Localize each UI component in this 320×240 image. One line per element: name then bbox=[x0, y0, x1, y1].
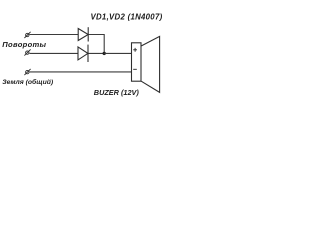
buzzer plus pin label bbox=[133, 48, 137, 52]
wire bus vertical joining cathodes bbox=[103, 34, 105, 53]
svg-text:VD1,VD2 (1N4007): VD1,VD2 (1N4007) bbox=[91, 12, 163, 21]
diode VD2 bbox=[78, 45, 88, 62]
buzzer BA1 body bbox=[132, 43, 142, 81]
buzzer horn bbox=[141, 36, 159, 92]
wire top input (Повороты 1) bbox=[30, 34, 79, 36]
wire VD1 cathode to bus bbox=[88, 34, 104, 36]
svg-text:Земля (общий): Земля (общий) bbox=[2, 78, 54, 86]
buzzer minus pin label bbox=[133, 68, 137, 70]
wire VD2 cathode to junction bbox=[88, 52, 104, 54]
node junction dot bbox=[103, 52, 106, 55]
wire second input (Повороты 2) bbox=[30, 52, 79, 54]
wire ground input to buzzer minus bbox=[30, 71, 132, 73]
terminal X1 (top turn input) bbox=[24, 32, 30, 38]
wire junction to buzzer plus bbox=[104, 52, 131, 54]
terminal X2 (second turn input) bbox=[24, 49, 30, 55]
diode VD1 bbox=[78, 27, 88, 41]
terminal X3 (ground input) bbox=[24, 69, 30, 75]
svg-text:BUZER (12V): BUZER (12V) bbox=[94, 88, 140, 97]
svg-text:Повороты: Повороты bbox=[2, 40, 46, 49]
